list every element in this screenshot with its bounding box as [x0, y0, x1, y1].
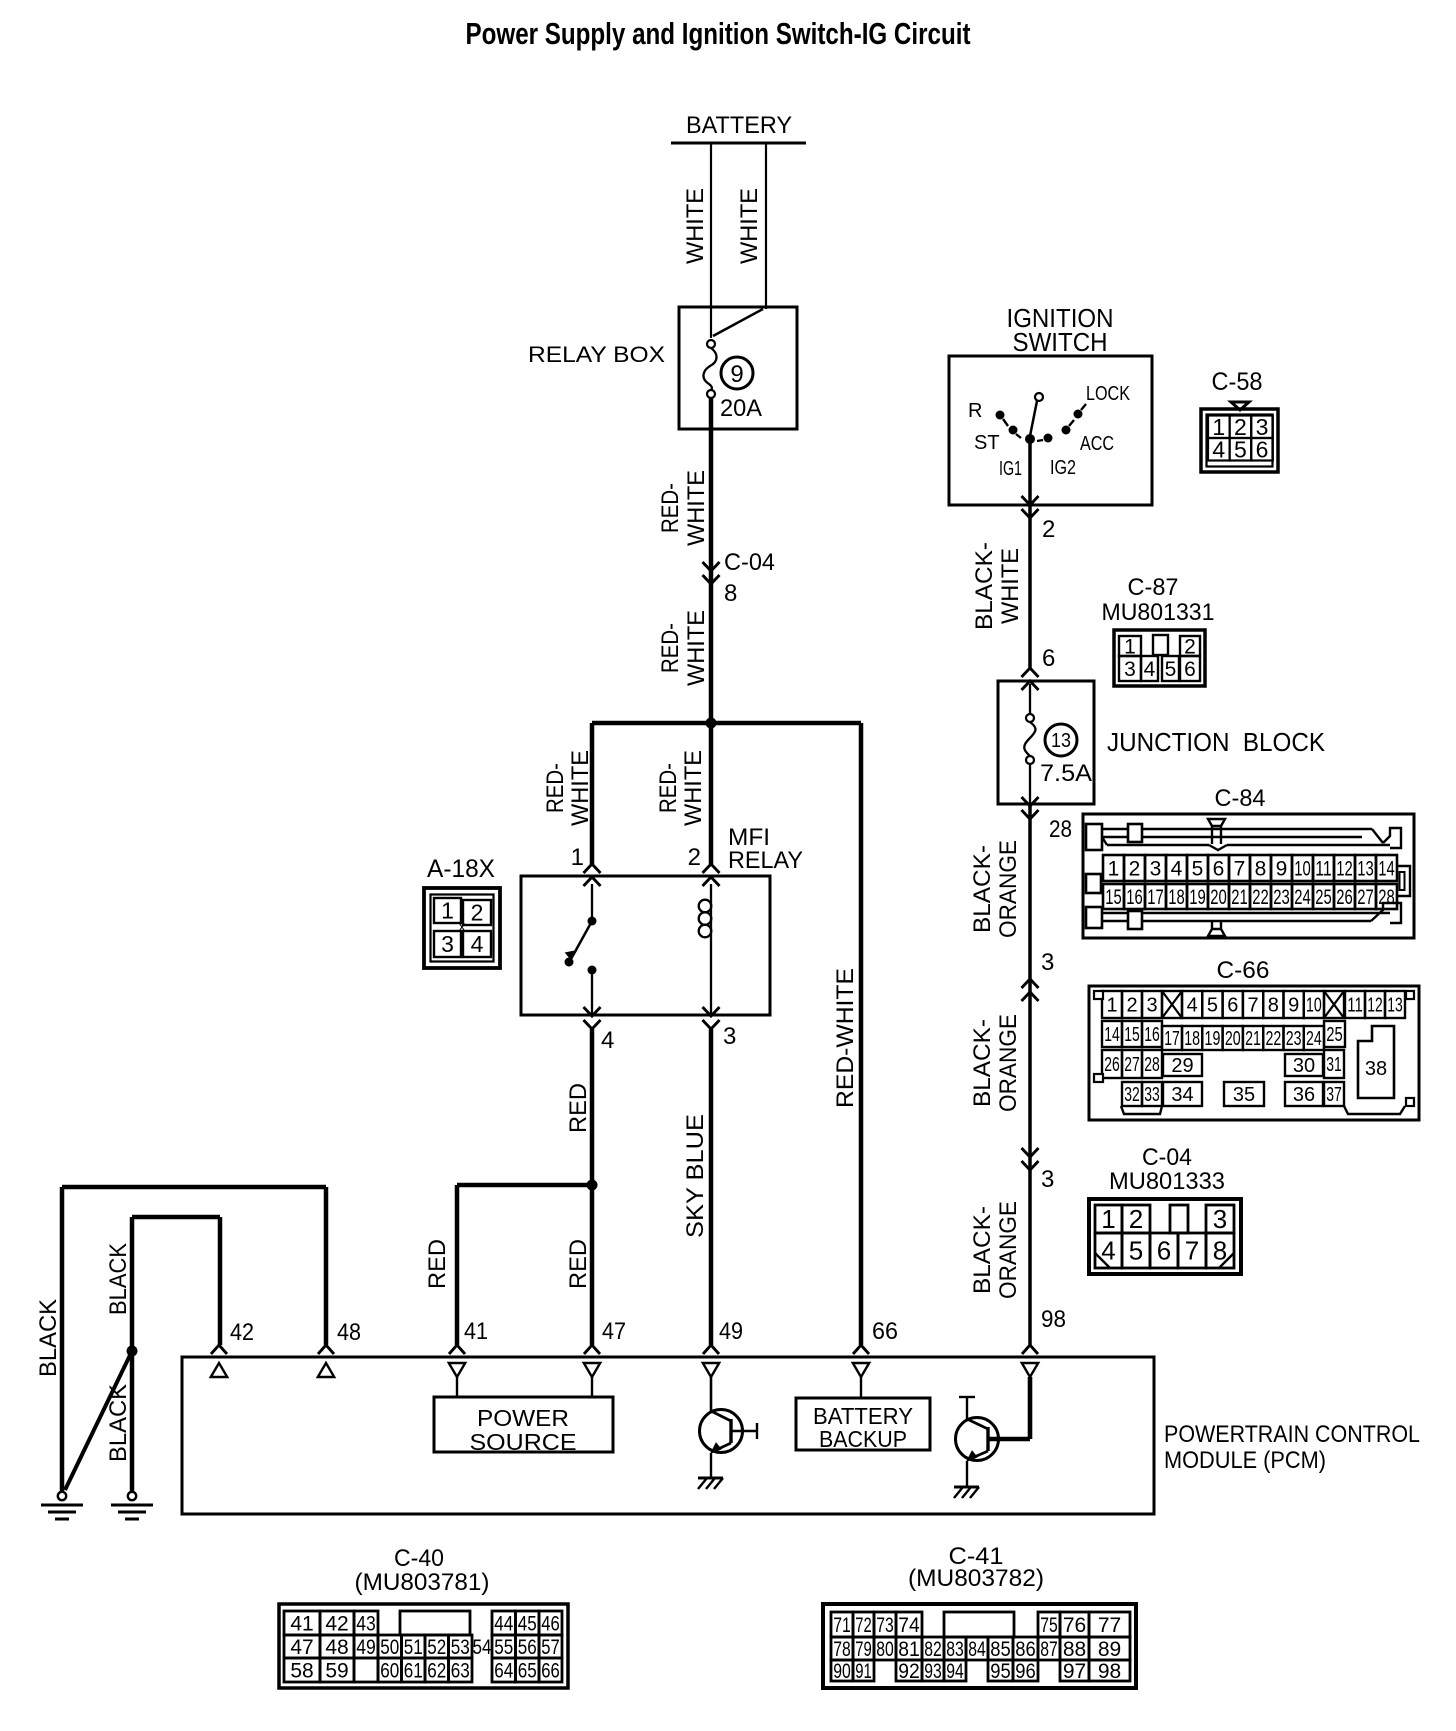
- svg-text:R: R: [968, 400, 982, 422]
- svg-text:76: 76: [1063, 1614, 1086, 1637]
- svg-text:(MU803782): (MU803782): [908, 1565, 1044, 1592]
- svg-text:95: 95: [990, 1660, 1011, 1683]
- svg-text:7: 7: [1247, 995, 1258, 1017]
- svg-text:RELAY: RELAY: [728, 847, 803, 874]
- svg-text:13: 13: [1051, 730, 1071, 752]
- svg-text:WHITE: WHITE: [997, 548, 1024, 624]
- svg-text:SOURCE: SOURCE: [470, 1429, 577, 1455]
- svg-text:29: 29: [1171, 1055, 1193, 1077]
- svg-text:84: 84: [968, 1638, 986, 1661]
- svg-text:C-87: C-87: [1128, 574, 1179, 601]
- svg-text:87: 87: [1040, 1638, 1058, 1661]
- svg-text:RED-: RED-: [655, 763, 682, 813]
- svg-text:13: 13: [1387, 995, 1403, 1017]
- svg-text:6: 6: [1213, 857, 1225, 880]
- svg-text:53: 53: [451, 1636, 470, 1659]
- svg-text:1: 1: [441, 898, 454, 924]
- svg-text:11: 11: [1347, 995, 1363, 1017]
- svg-text:9: 9: [1276, 857, 1288, 880]
- svg-text:MU801333: MU801333: [1109, 1168, 1225, 1195]
- svg-text:2: 2: [1126, 995, 1137, 1017]
- svg-text:28: 28: [1144, 1054, 1160, 1076]
- svg-text:83: 83: [946, 1638, 964, 1661]
- svg-text:5: 5: [1165, 658, 1177, 681]
- svg-text:51: 51: [404, 1636, 423, 1659]
- svg-text:44: 44: [494, 1612, 513, 1635]
- svg-text:80: 80: [876, 1638, 894, 1661]
- svg-text:74: 74: [898, 1614, 920, 1637]
- svg-text:28: 28: [1378, 886, 1395, 909]
- svg-text:ORANGE: ORANGE: [995, 840, 1022, 938]
- svg-text:47: 47: [602, 1318, 626, 1345]
- svg-text:21: 21: [1245, 1028, 1261, 1050]
- svg-text:15: 15: [1105, 886, 1122, 909]
- svg-text:24: 24: [1306, 1028, 1322, 1050]
- svg-text:BATTERY: BATTERY: [686, 112, 792, 139]
- svg-text:RED: RED: [424, 1239, 451, 1289]
- svg-text:22: 22: [1252, 886, 1269, 909]
- svg-text:42: 42: [325, 1612, 348, 1635]
- svg-text:1: 1: [571, 844, 584, 871]
- svg-text:33: 33: [1144, 1084, 1160, 1106]
- svg-text:C-84: C-84: [1215, 785, 1266, 812]
- svg-text:35: 35: [1233, 1084, 1255, 1106]
- svg-text:59: 59: [325, 1659, 348, 1682]
- svg-text:RELAY BOX: RELAY BOX: [528, 342, 665, 367]
- svg-text:63: 63: [451, 1659, 470, 1682]
- svg-text:49: 49: [719, 1318, 743, 1345]
- svg-text:BLACK-: BLACK-: [969, 1019, 996, 1107]
- svg-text:20: 20: [1210, 886, 1227, 909]
- svg-text:4: 4: [1144, 658, 1156, 681]
- svg-text:14: 14: [1378, 857, 1395, 880]
- svg-text:5: 5: [1234, 436, 1247, 462]
- svg-text:BACKUP: BACKUP: [819, 1426, 907, 1452]
- svg-text:50: 50: [380, 1636, 399, 1659]
- svg-text:5: 5: [1192, 857, 1204, 880]
- svg-text:20A: 20A: [720, 395, 762, 422]
- svg-text:93: 93: [924, 1660, 942, 1683]
- svg-text:94: 94: [946, 1660, 964, 1683]
- svg-text:26: 26: [1104, 1054, 1120, 1076]
- svg-text:6: 6: [1184, 658, 1196, 681]
- svg-text:1: 1: [1108, 857, 1120, 880]
- svg-text:79: 79: [855, 1638, 872, 1661]
- svg-text:BLACK-: BLACK-: [969, 1206, 996, 1294]
- svg-text:75: 75: [1040, 1614, 1058, 1637]
- svg-text:3: 3: [1146, 995, 1157, 1017]
- svg-text:45: 45: [518, 1612, 537, 1635]
- svg-text:28: 28: [1049, 816, 1072, 843]
- svg-text:37: 37: [1326, 1084, 1342, 1106]
- svg-text:Power Supply and Ignition Swit: Power Supply and Ignition Switch-IG Circ…: [466, 16, 971, 51]
- svg-text:IG2: IG2: [1050, 457, 1076, 479]
- svg-text:POWERTRAIN CONTROL: POWERTRAIN CONTROL: [1164, 1421, 1420, 1448]
- svg-text:10: 10: [1306, 995, 1322, 1017]
- svg-text:23: 23: [1286, 1028, 1302, 1050]
- svg-text:WHITE: WHITE: [683, 470, 710, 546]
- svg-text:12: 12: [1336, 857, 1353, 880]
- svg-text:BLACK-: BLACK-: [971, 542, 998, 630]
- svg-text:MODULE (PCM): MODULE (PCM): [1164, 1447, 1326, 1474]
- svg-text:3: 3: [723, 1023, 736, 1050]
- svg-text:16: 16: [1144, 1024, 1160, 1046]
- svg-text:71: 71: [833, 1614, 851, 1637]
- svg-text:3: 3: [1041, 949, 1054, 976]
- svg-text:64: 64: [494, 1659, 513, 1682]
- svg-text:25: 25: [1315, 886, 1332, 909]
- svg-text:4: 4: [1187, 995, 1198, 1017]
- svg-text:65: 65: [518, 1659, 537, 1682]
- svg-text:17: 17: [1164, 1028, 1180, 1050]
- svg-text:55: 55: [494, 1636, 513, 1659]
- svg-text:3: 3: [1124, 658, 1136, 681]
- svg-text:22: 22: [1265, 1028, 1281, 1050]
- svg-text:8: 8: [1255, 857, 1267, 880]
- svg-text:WHITE: WHITE: [682, 188, 709, 264]
- svg-text:2: 2: [471, 900, 484, 926]
- svg-text:ORANGE: ORANGE: [995, 1014, 1022, 1112]
- svg-text:78: 78: [833, 1638, 851, 1661]
- svg-text:4: 4: [1212, 436, 1225, 462]
- svg-text:89: 89: [1098, 1638, 1121, 1661]
- svg-text:7: 7: [1185, 1236, 1199, 1266]
- svg-text:66: 66: [872, 1318, 898, 1345]
- svg-text:58: 58: [290, 1659, 313, 1682]
- svg-text:10: 10: [1294, 857, 1311, 880]
- svg-text:x: x: [459, 918, 466, 934]
- svg-text:SKY BLUE: SKY BLUE: [682, 1114, 709, 1238]
- svg-text:BLACK: BLACK: [105, 1384, 132, 1462]
- svg-text:WHITE: WHITE: [680, 750, 707, 826]
- svg-text:54: 54: [473, 1636, 492, 1659]
- svg-text:73: 73: [876, 1614, 894, 1637]
- svg-text:2: 2: [688, 844, 701, 871]
- svg-text:8: 8: [1268, 995, 1279, 1017]
- svg-text:86: 86: [1015, 1638, 1036, 1661]
- svg-text:C-04: C-04: [724, 549, 775, 576]
- svg-text:31: 31: [1326, 1054, 1342, 1076]
- svg-text:SWITCH: SWITCH: [1013, 327, 1108, 357]
- svg-text:A-18X: A-18X: [427, 855, 495, 883]
- svg-text:3: 3: [1150, 857, 1162, 880]
- svg-text:14: 14: [1104, 1024, 1120, 1046]
- svg-text:WHITE: WHITE: [736, 188, 763, 264]
- svg-text:POWER: POWER: [477, 1405, 569, 1431]
- svg-text:24: 24: [1294, 886, 1311, 909]
- svg-text:25: 25: [1326, 1024, 1343, 1046]
- svg-text:2: 2: [1042, 516, 1055, 543]
- svg-text:92: 92: [898, 1660, 920, 1683]
- svg-text:85: 85: [990, 1638, 1011, 1661]
- svg-text:20: 20: [1225, 1028, 1241, 1050]
- svg-text:7: 7: [1234, 857, 1246, 880]
- svg-text:34: 34: [1171, 1084, 1193, 1106]
- svg-text:WHITE: WHITE: [567, 750, 594, 826]
- svg-text:61: 61: [404, 1659, 423, 1682]
- svg-text:19: 19: [1205, 1028, 1221, 1050]
- svg-text:17: 17: [1147, 886, 1164, 909]
- svg-text:1: 1: [1106, 995, 1117, 1017]
- svg-text:48: 48: [337, 1319, 361, 1346]
- svg-text:BLACK-: BLACK-: [969, 845, 996, 933]
- svg-text:56: 56: [518, 1636, 537, 1659]
- svg-text:97: 97: [1063, 1660, 1086, 1683]
- svg-text:5: 5: [1207, 995, 1218, 1017]
- svg-text:C-58: C-58: [1212, 368, 1263, 396]
- svg-text:18: 18: [1184, 1028, 1200, 1050]
- svg-text:(MU803781): (MU803781): [355, 1569, 490, 1596]
- svg-text:9: 9: [730, 361, 743, 388]
- svg-text:MU801331: MU801331: [1102, 599, 1215, 626]
- svg-text:C-40: C-40: [394, 1545, 444, 1572]
- svg-text:IG1: IG1: [999, 458, 1022, 480]
- svg-text:32: 32: [1124, 1084, 1140, 1106]
- svg-text:90: 90: [833, 1660, 851, 1683]
- svg-text:42: 42: [230, 1319, 254, 1346]
- svg-text:4: 4: [601, 1027, 614, 1054]
- svg-text:6: 6: [1042, 645, 1055, 672]
- svg-text:21: 21: [1231, 886, 1248, 909]
- svg-text:6: 6: [1157, 1236, 1171, 1266]
- svg-text:RED-: RED-: [542, 763, 569, 813]
- svg-text:43: 43: [356, 1612, 376, 1635]
- svg-text:2: 2: [1129, 857, 1141, 880]
- svg-text:RED-: RED-: [657, 623, 684, 673]
- svg-text:15: 15: [1124, 1024, 1140, 1046]
- svg-text:72: 72: [855, 1614, 872, 1637]
- svg-text:77: 77: [1098, 1614, 1121, 1637]
- svg-text:27: 27: [1357, 886, 1374, 909]
- svg-text:38: 38: [1365, 1058, 1387, 1080]
- svg-text:52: 52: [427, 1636, 446, 1659]
- svg-text:C-04: C-04: [1142, 1144, 1192, 1171]
- svg-text:5: 5: [1129, 1236, 1143, 1266]
- svg-text:62: 62: [427, 1659, 446, 1682]
- svg-text:18: 18: [1168, 886, 1185, 909]
- svg-text:3: 3: [1213, 1204, 1227, 1234]
- svg-text:RED: RED: [565, 1083, 592, 1133]
- svg-text:3: 3: [1041, 1166, 1054, 1193]
- svg-text:46: 46: [541, 1612, 560, 1635]
- svg-text:47: 47: [290, 1636, 313, 1659]
- svg-text:98: 98: [1041, 1306, 1066, 1333]
- svg-text:6: 6: [1227, 995, 1238, 1017]
- svg-text:RED-WHITE: RED-WHITE: [832, 968, 859, 1108]
- svg-text:ACC: ACC: [1080, 433, 1114, 455]
- svg-text:RED: RED: [565, 1239, 592, 1289]
- svg-text:4: 4: [1171, 857, 1183, 880]
- svg-text:12: 12: [1367, 995, 1383, 1017]
- svg-text:41: 41: [464, 1318, 488, 1345]
- svg-text:60: 60: [380, 1659, 399, 1682]
- svg-text:ST: ST: [974, 432, 1000, 454]
- svg-text:BLACK: BLACK: [35, 1299, 62, 1377]
- svg-text:C-66: C-66: [1217, 957, 1270, 984]
- svg-text:23: 23: [1273, 886, 1290, 909]
- svg-text:41: 41: [290, 1612, 313, 1635]
- svg-text:81: 81: [898, 1638, 920, 1661]
- svg-text:48: 48: [325, 1636, 348, 1659]
- svg-text:96: 96: [1015, 1660, 1036, 1683]
- svg-text:6: 6: [1256, 436, 1269, 462]
- svg-text:4: 4: [471, 931, 484, 957]
- svg-text:13: 13: [1357, 857, 1374, 880]
- svg-text:26: 26: [1336, 886, 1353, 909]
- svg-text:WHITE: WHITE: [683, 610, 710, 686]
- svg-text:57: 57: [541, 1636, 560, 1659]
- svg-text:3: 3: [441, 931, 454, 957]
- svg-text:11: 11: [1315, 857, 1332, 880]
- svg-text:66: 66: [541, 1659, 560, 1682]
- svg-text:7.5A: 7.5A: [1040, 760, 1092, 787]
- svg-text:BLACK: BLACK: [105, 1243, 132, 1315]
- svg-text:19: 19: [1189, 886, 1206, 909]
- svg-text:ORANGE: ORANGE: [995, 1201, 1022, 1299]
- svg-text:82: 82: [924, 1638, 942, 1661]
- svg-text:49: 49: [356, 1636, 376, 1659]
- svg-text:2: 2: [1129, 1204, 1143, 1234]
- svg-text:30: 30: [1293, 1055, 1315, 1077]
- svg-text:27: 27: [1124, 1054, 1140, 1076]
- svg-text:8: 8: [724, 580, 737, 607]
- svg-text:91: 91: [855, 1660, 872, 1683]
- svg-text:88: 88: [1063, 1638, 1086, 1661]
- svg-text:98: 98: [1098, 1660, 1121, 1683]
- svg-text:36: 36: [1293, 1084, 1315, 1106]
- svg-text:LOCK: LOCK: [1086, 383, 1131, 405]
- svg-text:RED-: RED-: [657, 483, 684, 533]
- svg-text:JUNCTION BLOCK: JUNCTION BLOCK: [1107, 727, 1326, 757]
- svg-text:1: 1: [1101, 1204, 1115, 1234]
- svg-text:16: 16: [1126, 886, 1143, 909]
- svg-text:9: 9: [1288, 995, 1299, 1017]
